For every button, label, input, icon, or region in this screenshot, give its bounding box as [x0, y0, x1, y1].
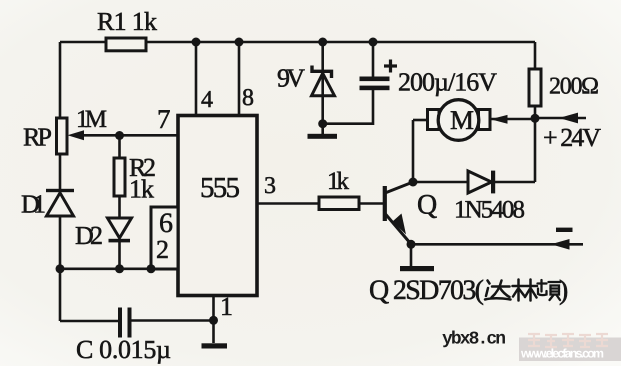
- resistor 200ohm body: [529, 69, 541, 106]
- wire collector node vertical: [412, 120, 415, 182]
- capacitor 200u/16V plates: [360, 77, 390, 91]
- svg-text:4: 4: [201, 87, 213, 113]
- wire bottom to capacitor C: [60, 320, 118, 323]
- resistor R2 body: [114, 158, 125, 196]
- capacitor C 0.015u plates: [118, 308, 132, 338]
- wire flyback diode left: [413, 181, 468, 184]
- motor M: [428, 100, 491, 141]
- wire 1k to base: [359, 202, 383, 205]
- wire pin 3 to 1k: [257, 202, 319, 205]
- wire emitter to minus terminal: [411, 243, 583, 246]
- svg-text:M: M: [450, 105, 474, 135]
- svg-text:ybx8.cn: ybx8.cn: [442, 330, 506, 350]
- transistor Q emitter arrowhead: [393, 214, 407, 235]
- IC U1 555 body: [178, 116, 257, 296]
- svg-text:555: 555: [200, 172, 240, 204]
- resistor 1k (base) body: [319, 197, 359, 210]
- IC pin 6/2 notch box: [151, 207, 178, 269]
- wire 9V zener vertical: [321, 42, 324, 134]
- wire motor left lead: [413, 119, 428, 122]
- +24V terminal arrowhead: [559, 113, 578, 124]
- svg-text:+ 24V: + 24V: [543, 123, 601, 152]
- node +24V junction: [531, 114, 540, 123]
- svg-text:9V: 9V: [277, 64, 305, 93]
- svg-text:1: 1: [220, 292, 233, 321]
- wire left rail RP-to-D1: [59, 154, 62, 190]
- wire D2 to pin2 net: [118, 242, 121, 269]
- wire R2 to D2: [118, 196, 121, 218]
- svg-text:D1: D1: [21, 190, 46, 219]
- watermark hanzi strip: [528, 334, 608, 347]
- transistor Q collector stroke: [385, 182, 413, 193]
- transistor Q base bar: [383, 186, 387, 221]
- svg-text:RP: RP: [23, 123, 52, 152]
- ground below emitter: [400, 266, 434, 271]
- hanzi DA (of Darlington): [485, 281, 511, 300]
- ground below 9V zener: [308, 134, 338, 139]
- node pin2 net left: [56, 264, 65, 273]
- RP wiper arrow: [68, 130, 85, 140]
- node wiper junction: [115, 131, 124, 140]
- wire 200u cap upper lead: [372, 42, 375, 77]
- wire 200ohm top: [534, 42, 537, 69]
- svg-text:7: 7: [157, 104, 171, 134]
- node collector: [409, 178, 418, 187]
- minus terminal arrowhead: [551, 239, 570, 250]
- wire 200u cap lower lead: [323, 90, 373, 124]
- wire left rail D1-to-bottom: [59, 216, 62, 321]
- resistor RP body: [57, 118, 68, 154]
- wire motor right lead to +24V node: [490, 118, 535, 121]
- node top rail cap: [369, 38, 378, 47]
- zener diode 9V: [312, 66, 335, 96]
- node top rail pin8: [235, 38, 244, 47]
- arrow into motor: [491, 115, 508, 124]
- hanzi DUN (of Darlington): [538, 280, 561, 300]
- svg-text:Q: Q: [417, 190, 437, 221]
- resistor R1: [106, 38, 146, 51]
- wire 200ohm bottom to diode line: [534, 106, 537, 182]
- svg-text:): ): [559, 275, 568, 306]
- svg-text:200µ/16V: 200µ/16V: [398, 68, 497, 97]
- wire RP wiper to pin 7: [78, 134, 178, 137]
- wire top rail: [60, 41, 535, 44]
- node zener cap junction: [318, 119, 327, 128]
- diode D1: [46, 189, 74, 216]
- svg-text:R1 1k: R1 1k: [97, 7, 157, 36]
- transistor Q emitter stroke: [385, 214, 411, 244]
- wire capacitor C to pin1 node: [131, 319, 214, 322]
- svg-text:3: 3: [264, 173, 276, 199]
- wire pin 4: [195, 42, 198, 116]
- hanzi LIN (of Darlington): [513, 280, 538, 301]
- svg-text:1k: 1k: [327, 168, 350, 195]
- svg-text:200Ω: 200Ω: [549, 74, 599, 100]
- node top rail zener: [318, 38, 327, 47]
- wire flyback diode right: [495, 181, 535, 184]
- svg-text:2: 2: [156, 235, 169, 264]
- node top rail pin4: [192, 38, 201, 47]
- diode 1N5408: [468, 171, 495, 194]
- node pin1 capacitor: [209, 316, 218, 325]
- wire mid-left horizontal (pin2 net): [60, 267, 152, 270]
- wire emitter ground drop: [410, 244, 413, 266]
- ground below pin 1: [202, 343, 228, 348]
- plus sign of 200u cap: [384, 60, 397, 73]
- svg-text:Q 2SD703(: Q 2SD703(: [369, 275, 484, 306]
- node pin2 net D2: [115, 264, 124, 273]
- watermark elecfans block: [519, 338, 621, 362]
- wire R2 branch upper: [118, 136, 121, 158]
- node emitter: [407, 240, 416, 249]
- svg-text:1M: 1M: [76, 106, 107, 133]
- node pin2 net box corner: [147, 264, 156, 273]
- wire +24V terminal: [535, 117, 586, 120]
- wire pin 1: [212, 295, 215, 343]
- wire pin 8: [238, 42, 241, 116]
- svg-text:C 0.015µ: C 0.015µ: [76, 335, 171, 364]
- svg-text:1k: 1k: [129, 175, 154, 204]
- svg-text:www.elecfans.com: www.elecfans.com: [520, 347, 604, 361]
- svg-text:8: 8: [242, 85, 254, 111]
- svg-text:D2: D2: [75, 221, 103, 250]
- svg-text:1N5408: 1N5408: [454, 197, 525, 224]
- wire left rail upper: [59, 42, 62, 118]
- minus sign above terminal: [556, 228, 573, 232]
- diode D2: [108, 218, 132, 242]
